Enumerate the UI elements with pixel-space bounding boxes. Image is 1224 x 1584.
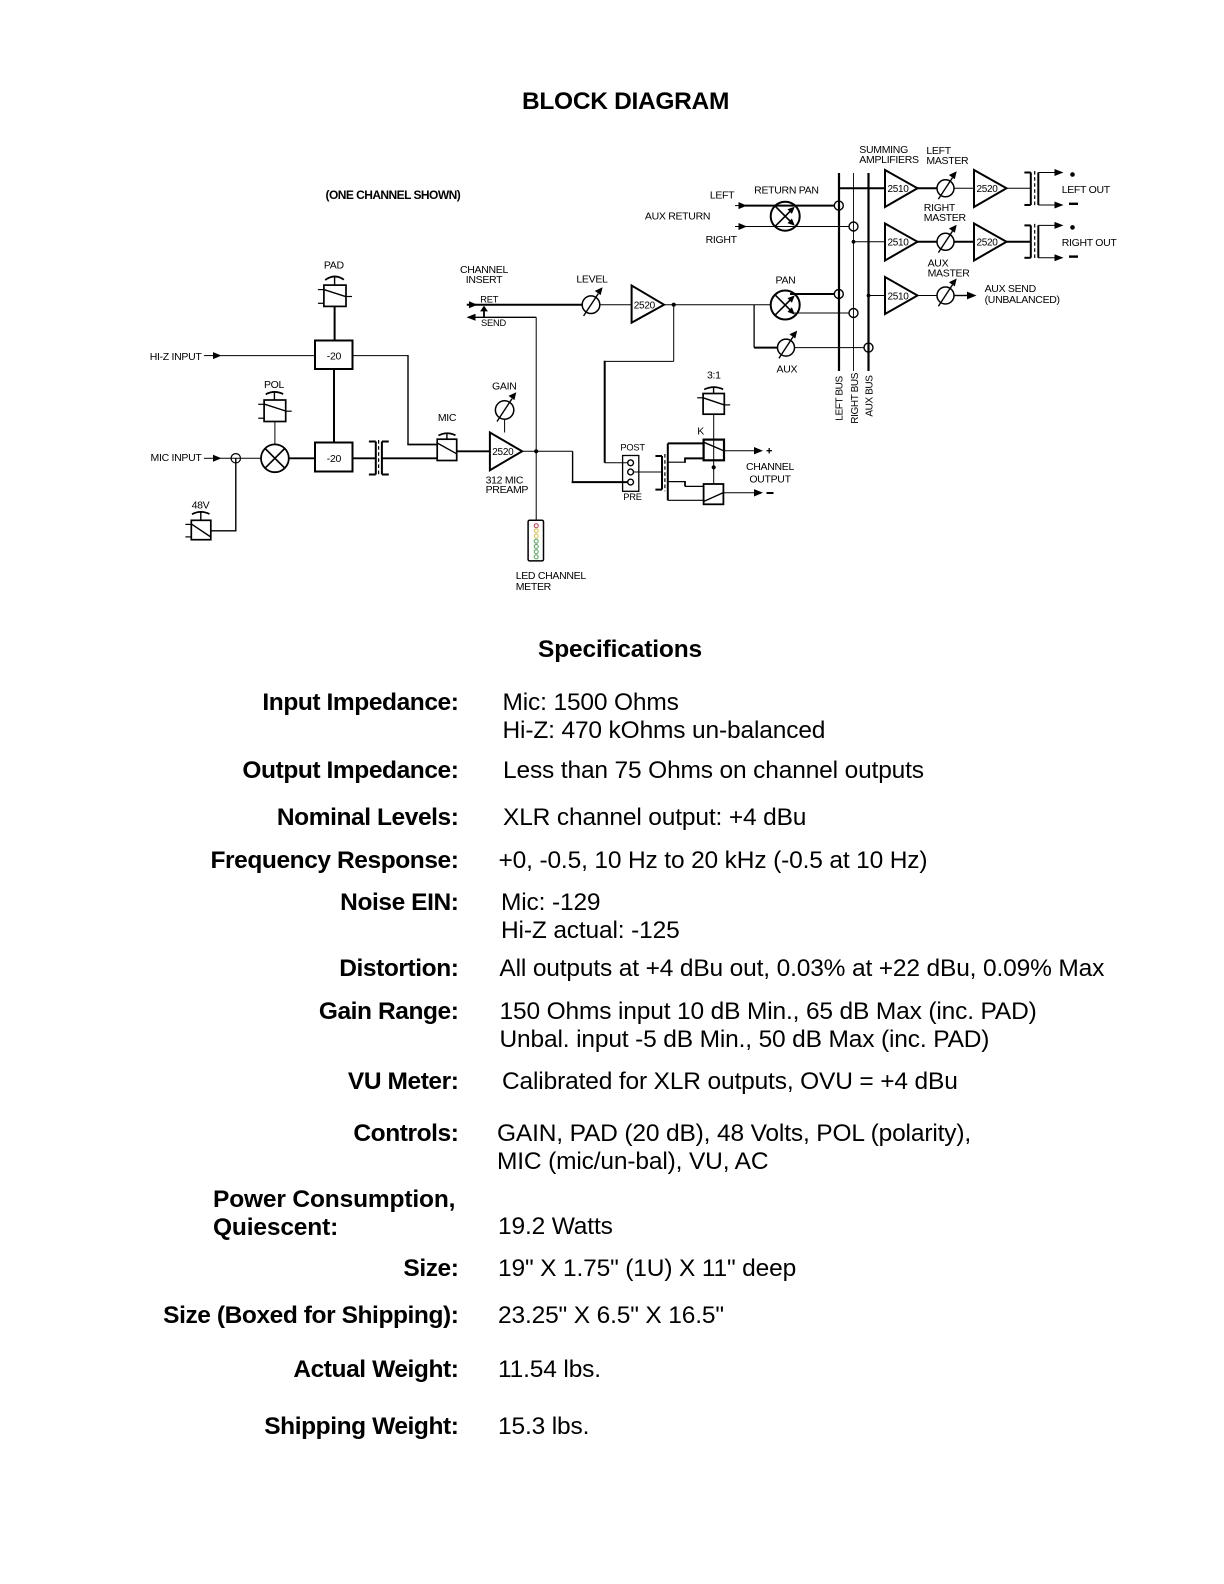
spec row: Power Consumption: [213, 1186, 455, 1242]
switch MIC select: [439, 433, 456, 435]
wire MIC input to polarity circle: [221, 457, 262, 459]
wire GAIN to preamp: [504, 419, 506, 432]
wire PAN right out: [793, 312, 849, 314]
node insert normal connect arrow: [480, 306, 488, 312]
title BLOCK DIAGRAM: [522, 88, 729, 116]
wire meter feed: [535, 451, 537, 520]
spec row: Distortion: [339, 955, 458, 983]
node right bus feed circle (pan): [849, 309, 858, 318]
connector POST/PRE: [623, 456, 639, 492]
op-amp 2520 fader buffer: [632, 286, 664, 323]
wire fader out to PAN: [664, 304, 771, 306]
spec row: Nominal Levels: [277, 804, 459, 832]
wire transformer to MIC switch: [382, 457, 437, 459]
svg-text:GAIN: GAIN: [492, 381, 516, 393]
wire PAN left out: [790, 293, 834, 295]
node polarity multiplier circle X: [261, 444, 289, 472]
op-amp 2510 left summing: [885, 170, 918, 207]
attenuator -20 mic box: [315, 443, 353, 472]
svg-text:2510: 2510: [888, 238, 910, 249]
wire aux branch: [753, 305, 755, 348]
svg-text:PAD: PAD: [324, 259, 345, 271]
switch 48V phantom: [192, 512, 210, 514]
wire HI-Z input to -20 pad: [221, 355, 316, 357]
Specifications heading: [538, 636, 702, 664]
svg-text:OUTPUT: OUTPUT: [749, 474, 791, 486]
wire channel out plus: [724, 450, 756, 452]
svg-text:AUX: AUX: [777, 364, 798, 376]
svg-text:2520: 2520: [634, 301, 656, 312]
wire secondary top: [668, 442, 704, 444]
node K junction dot: [712, 465, 716, 469]
pot LEVEL fader: [582, 296, 600, 314]
svg-text:CHANNEL: CHANNEL: [746, 461, 795, 473]
op-amp 2510 right summing: [885, 224, 918, 261]
spec row: Controls: [353, 1120, 458, 1148]
svg-text:2520: 2520: [977, 184, 999, 195]
svg-text:AUX RETURN: AUX RETURN: [645, 211, 710, 223]
svg-text:MASTER: MASTER: [924, 212, 967, 224]
wire RIGHT return in: [735, 226, 740, 228]
spec row: Output Impedance: [242, 757, 458, 785]
spec row: Gain Range: [319, 998, 459, 1026]
wire 3:1 down through K: [713, 414, 715, 484]
wire pre-fader drop: [572, 451, 574, 482]
node preamp output junction dot: [534, 449, 538, 453]
svg-text:METER: METER: [516, 581, 552, 593]
wire HI-Z into MIC switch: [407, 444, 437, 446]
svg-text:2510: 2510: [888, 184, 910, 195]
svg-text:AMPLIFIERS: AMPLIFIERS: [859, 154, 919, 166]
svg-text:SEND: SEND: [481, 318, 507, 328]
node post-fader junction dot: [672, 303, 676, 307]
spec row: Actual Weight: [293, 1356, 458, 1384]
svg-text:2520: 2520: [492, 447, 514, 458]
switch PAD: [325, 276, 344, 280]
op-amp 2520 preamp: [490, 433, 522, 471]
attenuator -20 hi-z box: [315, 341, 353, 370]
svg-text:LEVEL: LEVEL: [576, 273, 608, 285]
spec row: Size boxed: [163, 1302, 458, 1330]
svg-text:POST: POST: [620, 443, 645, 453]
svg-text:RIGHT: RIGHT: [706, 234, 738, 246]
wire post drop to POST pin: [604, 361, 606, 463]
pot GAIN: [495, 401, 513, 419]
wire right bus to summing R: [854, 241, 886, 243]
wire LEVEL to fader amp: [600, 304, 632, 306]
node left bus feed circle (return): [834, 201, 843, 210]
spec row: Size: [403, 1255, 458, 1283]
wire multiplier to -20: [289, 457, 315, 459]
bus RIGHT BUS: [853, 173, 855, 371]
spec row: Input Impedance: [262, 689, 458, 717]
svg-text:2520: 2520: [977, 238, 999, 249]
pot RIGHT MASTER: [937, 233, 954, 250]
wire left bus to summing L: [839, 187, 885, 189]
node plus sign: [767, 450, 773, 452]
wire -20 pad to vertical elbow: [353, 355, 409, 357]
node left bus feed circle (pan): [834, 290, 843, 299]
node right bus feed circle (return): [849, 222, 858, 231]
wire aux bus to summing A: [869, 295, 886, 297]
node HI-Z input arrowhead: [213, 352, 222, 359]
switch POL polarity: [266, 392, 284, 394]
transformer RIGHT OUT: [1030, 225, 1032, 257]
spec row: Shipping Weight: [264, 1413, 458, 1441]
transformer channel output: [661, 456, 663, 490]
bus AUX BUS: [867, 173, 869, 371]
wire SEND line: [468, 316, 536, 318]
wire between -20 boxes: [333, 369, 335, 443]
svg-text:LEFT: LEFT: [710, 190, 735, 202]
pot AUX send level: [778, 339, 795, 356]
wire HI-Z input arrow lead: [204, 355, 214, 357]
wire 48V feed up to junction: [211, 458, 236, 531]
svg-text:PRE: PRE: [623, 492, 642, 502]
node minus sign: [767, 492, 774, 494]
wire PAD to -20 box: [334, 306, 336, 340]
svg-text:3:1: 3:1: [707, 370, 721, 382]
svg-text:MASTER: MASTER: [928, 267, 971, 279]
wire wiper to output transformer: [634, 471, 663, 473]
wire -20 to mic transformer: [353, 457, 376, 459]
switch 3:1 ratio: [704, 387, 723, 389]
node aux bus feed circle: [864, 343, 873, 352]
op-amp 2520 left out amp: [974, 170, 1007, 207]
svg-text:RETURN PAN: RETURN PAN: [754, 185, 818, 197]
wire HI-Z vertical drop: [407, 355, 409, 444]
svg-text:POL: POL: [264, 379, 285, 391]
transformer LEFT OUT: [1030, 173, 1032, 206]
svg-text:MIC: MIC: [438, 412, 457, 424]
node SEND arrowhead: [467, 314, 476, 321]
svg-text:HI-Z INPUT: HI-Z INPUT: [150, 351, 203, 363]
svg-text:2510: 2510: [888, 291, 910, 302]
wire MIC input arrow lead: [204, 457, 214, 459]
svg-text:K: K: [697, 426, 704, 438]
wire AUX to aux bus: [794, 347, 864, 349]
spec row: VU Meter: [348, 1068, 459, 1096]
svg-text:LEFT OUT: LEFT OUT: [1062, 184, 1111, 196]
spec row: Frequency Response: [211, 847, 459, 875]
spec row: Noise EIN: [340, 889, 458, 917]
wire RET return line: [467, 304, 583, 306]
wire LEFT return in: [735, 205, 740, 207]
wire MIC switch to preamp: [457, 450, 490, 452]
svg-text:PREAMP: PREAMP: [486, 484, 529, 496]
wire channel out minus: [723, 492, 755, 494]
svg-text:MIC INPUT: MIC INPUT: [151, 452, 203, 464]
svg-text:RIGHT BUS: RIGHT BUS: [850, 372, 861, 423]
wire AUX SEND out: [954, 295, 968, 297]
wire master L to 2520: [954, 187, 974, 189]
op-amp 2520 right out amp: [974, 224, 1007, 261]
node RET arrowhead: [469, 301, 478, 308]
wire post tap left: [605, 360, 674, 362]
node phantom junction circle: [231, 454, 240, 463]
op-amp 2510 aux summing: [885, 277, 918, 314]
node MIC input arrowhead: [213, 455, 222, 462]
attenuator K lower: [704, 484, 724, 504]
wire secondary lower tap: [668, 481, 685, 483]
svg-text:RIGHT OUT: RIGHT OUT: [1062, 237, 1118, 249]
wire to left out transformer: [1007, 187, 1031, 189]
wire secondary bottom: [668, 499, 704, 501]
svg-text:AUX BUS: AUX BUS: [865, 375, 876, 417]
svg-text:RET: RET: [480, 295, 499, 305]
svg-text:LEFT BUS: LEFT BUS: [835, 376, 846, 421]
pot AUX MASTER: [937, 287, 954, 304]
wire POL to multiplier circle: [274, 422, 276, 446]
svg-text:INSERT: INSERT: [466, 274, 503, 286]
wire SEND drop to preamp node: [535, 317, 537, 451]
svg-text:-20: -20: [327, 350, 342, 362]
wire preamp output: [522, 450, 573, 452]
wire post tap down: [673, 305, 675, 362]
svg-text:-20: -20: [327, 453, 342, 465]
meter LED channel meter: [528, 520, 543, 561]
transformer mic input: [375, 442, 377, 475]
svg-text:MASTER: MASTER: [926, 155, 969, 167]
wire pre line to PRE pin: [572, 481, 628, 483]
svg-text:48V: 48V: [192, 499, 210, 511]
svg-text:PAN: PAN: [776, 274, 796, 286]
caption ONE CHANNEL SHOWN: [326, 187, 461, 203]
bus LEFT BUS: [838, 173, 840, 371]
svg-text:(UNBALANCED): (UNBALANCED): [985, 294, 1060, 306]
wire secondary upper tap: [668, 461, 685, 463]
